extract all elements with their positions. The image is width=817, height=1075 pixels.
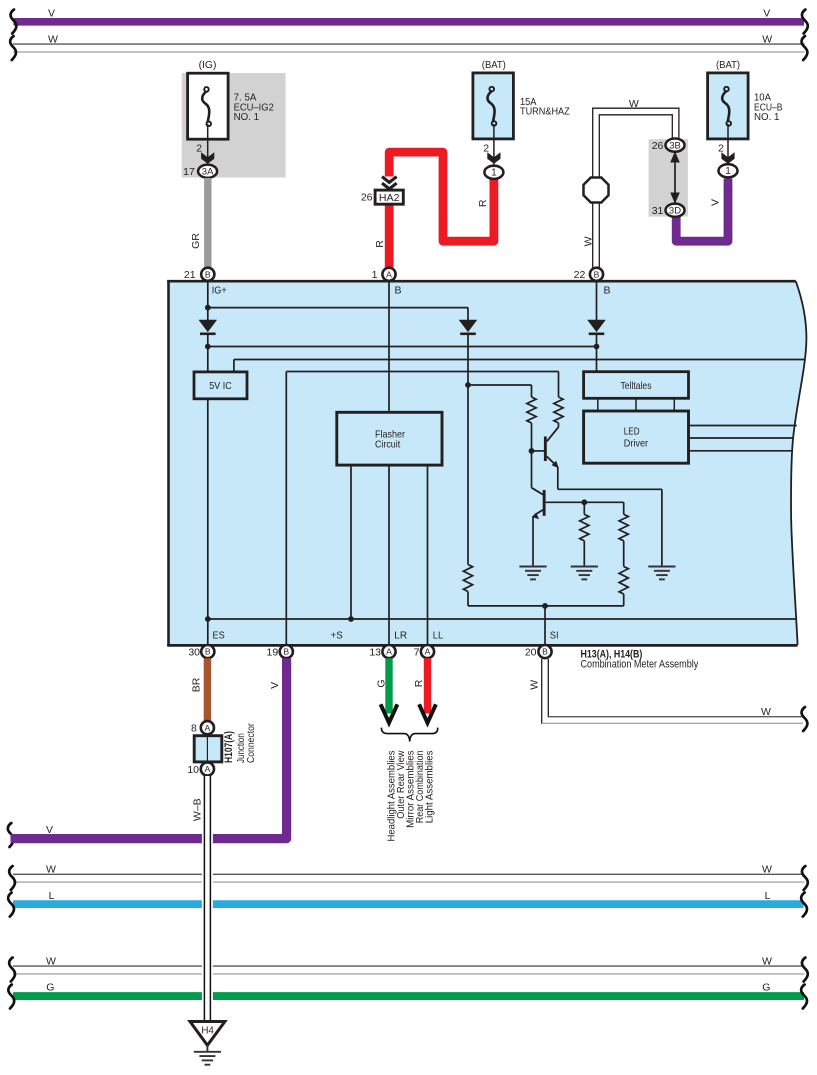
svg-text:7: 7 — [414, 647, 420, 659]
svg-text:G: G — [375, 679, 387, 687]
svg-text:BR: BR — [191, 677, 203, 692]
svg-text:L: L — [765, 890, 771, 902]
svg-text:R: R — [374, 240, 386, 248]
svg-text:Telltales: Telltales — [621, 380, 652, 392]
svg-text:W: W — [629, 98, 639, 110]
svg-text:W: W — [762, 864, 772, 876]
svg-text:B: B — [205, 647, 211, 657]
svg-text:G: G — [46, 982, 54, 994]
svg-text:W: W — [762, 33, 772, 45]
svg-text:SI: SI — [550, 630, 559, 642]
svg-text:W: W — [762, 955, 772, 967]
svg-text:8: 8 — [191, 723, 197, 735]
svg-text:B: B — [395, 285, 402, 297]
svg-text:3A: 3A — [202, 167, 214, 178]
svg-text:10: 10 — [187, 764, 199, 776]
svg-text:G: G — [762, 982, 770, 994]
svg-text:20: 20 — [525, 647, 537, 659]
svg-text:26: 26 — [652, 140, 664, 152]
svg-text:TURN&HAZ: TURN&HAZ — [520, 106, 570, 118]
svg-text:A: A — [386, 647, 392, 657]
svg-text:30: 30 — [188, 647, 200, 659]
svg-text:V: V — [763, 7, 770, 19]
svg-text:W: W — [529, 680, 541, 690]
svg-text:5V IC: 5V IC — [209, 380, 232, 392]
svg-text:NO. 1: NO. 1 — [234, 111, 260, 123]
svg-text:3D: 3D — [669, 206, 681, 217]
svg-text:W: W — [46, 864, 56, 876]
svg-text:A: A — [425, 647, 431, 657]
svg-text:L: L — [49, 890, 55, 902]
svg-text:Circuit: Circuit — [375, 438, 400, 450]
svg-text:ES: ES — [213, 630, 225, 642]
svg-text:1: 1 — [725, 166, 731, 177]
svg-text:21: 21 — [184, 269, 196, 281]
svg-text:31: 31 — [652, 205, 664, 217]
svg-text:NO. 1: NO. 1 — [754, 111, 780, 123]
svg-text:13: 13 — [369, 647, 381, 659]
svg-text:17: 17 — [183, 166, 195, 178]
svg-text:LR: LR — [394, 630, 407, 642]
svg-text:LL: LL — [433, 630, 443, 642]
svg-text:2: 2 — [718, 143, 724, 155]
svg-text:LED: LED — [624, 426, 640, 438]
svg-text:A: A — [386, 269, 392, 279]
svg-text:H107(A): H107(A) — [223, 731, 235, 763]
svg-text:V: V — [48, 7, 55, 19]
svg-text:V: V — [710, 199, 722, 206]
svg-text:HA2: HA2 — [379, 193, 400, 204]
svg-text:B: B — [594, 269, 600, 279]
svg-text:Connector: Connector — [245, 723, 257, 763]
svg-text:+S: +S — [331, 630, 343, 642]
svg-text:W–B: W–B — [191, 798, 203, 821]
svg-text:IG+: IG+ — [212, 285, 227, 297]
svg-text:V: V — [269, 682, 281, 689]
svg-text:W: W — [761, 706, 771, 718]
svg-text:Driver: Driver — [624, 438, 649, 450]
svg-text:GR: GR — [190, 233, 202, 249]
svg-text:(IG): (IG) — [199, 59, 217, 71]
svg-text:W: W — [582, 236, 594, 246]
svg-text:B: B — [205, 269, 211, 279]
svg-text:3B: 3B — [669, 140, 681, 151]
svg-text:19: 19 — [267, 647, 279, 659]
svg-text:(BAT): (BAT) — [716, 59, 740, 71]
svg-text:Combination Meter Assembly: Combination Meter Assembly — [581, 659, 699, 671]
svg-text:R: R — [477, 199, 489, 207]
svg-text:22: 22 — [574, 269, 586, 281]
svg-text:R: R — [413, 679, 425, 687]
svg-text:W: W — [48, 33, 58, 45]
svg-text:2: 2 — [483, 143, 489, 155]
svg-text:W: W — [46, 955, 56, 967]
svg-text:B: B — [542, 647, 548, 657]
svg-text:1: 1 — [491, 168, 497, 179]
svg-text:A: A — [205, 764, 211, 774]
svg-text:A: A — [205, 723, 211, 733]
svg-text:Light Assemblies: Light Assemblies — [424, 750, 435, 823]
svg-text:1: 1 — [372, 269, 378, 281]
svg-text:(BAT): (BAT) — [482, 59, 506, 71]
svg-text:B: B — [604, 285, 611, 297]
svg-text:H4: H4 — [201, 1025, 214, 1036]
svg-text:B: B — [283, 647, 289, 657]
svg-text:26: 26 — [361, 191, 373, 203]
